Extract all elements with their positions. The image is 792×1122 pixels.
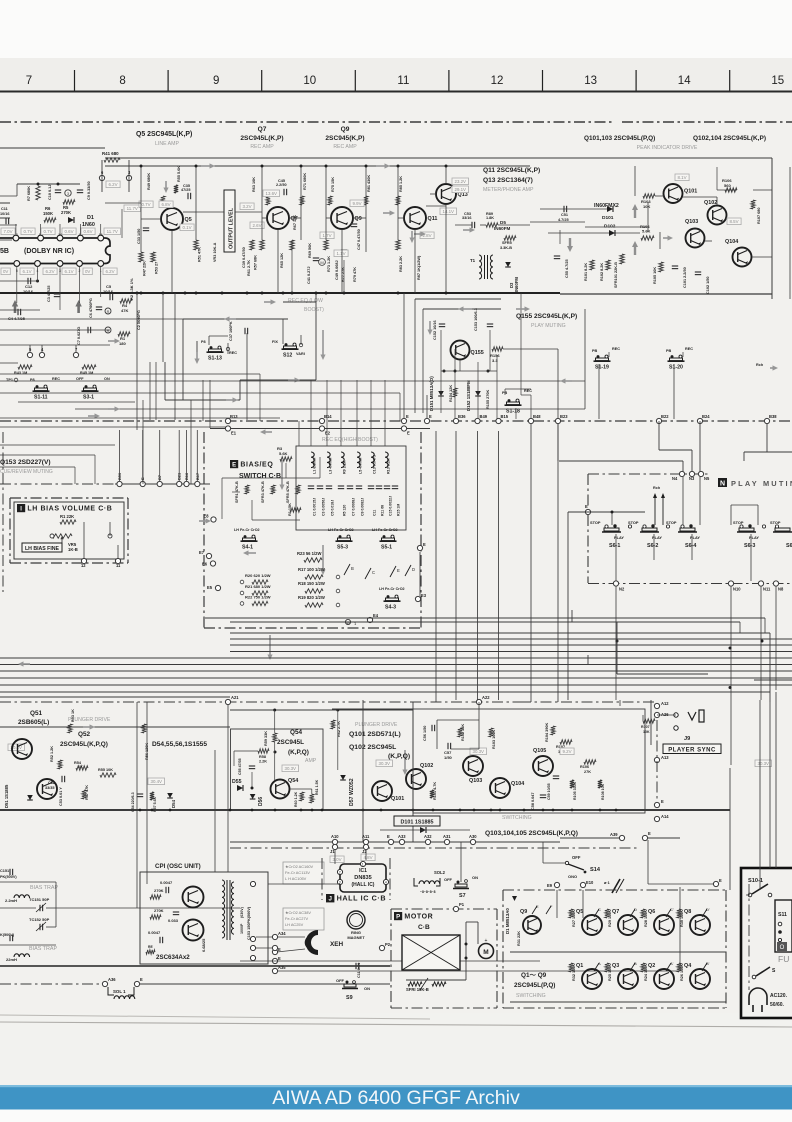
junction xyxy=(459,809,462,812)
svg-text:REC: REC xyxy=(52,377,60,381)
capacitor C53 33/16 xyxy=(471,222,473,228)
switch S6-3 pads xyxy=(739,528,754,531)
junction xyxy=(473,809,476,812)
svg-text:E: E xyxy=(585,504,588,509)
svg-text:LH BIAS FINE: LH BIAS FINE xyxy=(25,546,60,552)
switch S6-2 pads xyxy=(642,528,657,531)
node E xyxy=(585,509,590,514)
wire osc 948 xyxy=(256,947,273,949)
svg-text:Q7: Q7 xyxy=(612,909,619,915)
ruler baseline xyxy=(0,91,792,93)
node E9 xyxy=(554,882,559,887)
voltage label 1.7V xyxy=(320,232,334,239)
capacitor C11b xyxy=(355,963,357,969)
svg-text:R21 680 1/2W: R21 680 1/2W xyxy=(245,584,271,589)
arrow rch xyxy=(770,365,778,370)
wire eq inner left xyxy=(221,478,223,519)
wire 11.7 col xyxy=(121,209,123,238)
svg-text:10K: 10K xyxy=(643,204,650,209)
svg-text:OFF: OFF xyxy=(336,978,345,983)
inductor L3 4.7mH xyxy=(327,452,330,468)
svg-text:(630V): (630V) xyxy=(240,906,244,918)
wire drop cluster xyxy=(190,400,192,484)
resistor R24 100K xyxy=(641,963,645,972)
svg-text:E: E xyxy=(406,414,409,419)
wire q102 top xyxy=(716,167,718,190)
wire Q9 col1 xyxy=(325,166,327,240)
wire feeder xyxy=(186,430,188,481)
voltage label 30.3V xyxy=(376,760,393,767)
svg-text:Q1〜 Q9: Q1〜 Q9 xyxy=(521,972,547,979)
node A12 xyxy=(654,703,659,708)
svg-text:0V: 0V xyxy=(3,269,8,274)
wire A22 col down xyxy=(478,702,480,749)
svg-text:1K: 1K xyxy=(78,765,83,769)
wire q9 col2 xyxy=(365,166,367,252)
wire Q102 collector xyxy=(716,197,718,205)
IC pin stub top xyxy=(79,224,81,235)
wire r61 up xyxy=(311,789,313,794)
node E xyxy=(417,545,422,550)
wire tc151 to osc xyxy=(56,907,240,909)
arrow rec eq 5 xyxy=(264,299,276,304)
svg-text:33/16: 33/16 xyxy=(462,216,472,220)
wire mid h409 xyxy=(75,408,585,410)
wire col 521 jog xyxy=(521,394,531,396)
svg-text:270K: 270K xyxy=(154,908,164,913)
wire bus step v588 xyxy=(587,655,589,665)
svg-text:FIX: FIX xyxy=(272,340,278,344)
svg-text:12: 12 xyxy=(81,563,86,568)
svg-text:S12: S12 xyxy=(283,353,292,359)
wire q54 collector xyxy=(274,742,276,780)
svg-text:C54 220/6.3: C54 220/6.3 xyxy=(131,792,135,812)
board BIAS EQ outline bottom xyxy=(204,627,421,629)
wire feeder 147 low xyxy=(146,702,148,884)
svg-text:10K: 10K xyxy=(643,730,650,734)
resistor R89 1.8K xyxy=(486,223,498,227)
board title HALL IC CB xyxy=(326,894,334,902)
svg-text:C11: C11 xyxy=(373,510,377,516)
node E3 xyxy=(415,596,420,601)
voltage label 6.1V xyxy=(62,268,76,275)
svg-text:Q153 2SD227(V): Q153 2SD227(V) xyxy=(0,459,51,466)
svg-text:E2: E2 xyxy=(325,430,331,435)
node B15 xyxy=(496,418,501,423)
node B14 xyxy=(319,418,324,423)
wire tc152b xyxy=(46,926,56,928)
arrow down mid xyxy=(320,330,325,360)
wire Q7 base xyxy=(262,217,267,219)
voltage label 30.3V xyxy=(282,765,299,772)
IC IC1 5B (DOLBY NR IC) body xyxy=(0,238,110,264)
svg-text:L H AC105V: L H AC105V xyxy=(285,876,307,881)
svg-text:R106: R106 xyxy=(580,765,589,769)
svg-text:P1: P1 xyxy=(459,902,465,907)
voltage label 30.4V xyxy=(8,744,25,751)
svg-text:E: E xyxy=(278,956,281,961)
svg-text:Q5: Q5 xyxy=(185,217,192,223)
svg-text:2SC945L: 2SC945L xyxy=(277,739,304,746)
wire right col a xyxy=(729,768,731,890)
capacitor C7 0.027G xyxy=(87,327,89,333)
node 3 xyxy=(126,175,131,180)
resistor R156 3.3 xyxy=(492,347,503,351)
svg-text:Q51: Q51 xyxy=(30,710,43,717)
svg-text:C9 0.0082J: C9 0.0082J xyxy=(361,498,365,516)
resistor R23 xyxy=(304,558,322,562)
wire pin4 down xyxy=(37,266,39,281)
resistor R1 15K xyxy=(290,508,301,512)
wire rec eq 4 xyxy=(164,362,166,400)
wire Q5 col1 xyxy=(140,166,142,252)
svg-text:E: E xyxy=(648,831,651,836)
wire s7 feed xyxy=(460,842,462,882)
junction xyxy=(325,165,328,168)
motor board right xyxy=(496,909,498,1008)
node N10 xyxy=(728,581,733,586)
node A21 xyxy=(225,699,230,704)
wire B24 down xyxy=(699,421,701,474)
svg-text:STOP: STOP xyxy=(666,520,677,525)
IC pin 3 xyxy=(57,261,63,267)
svg-text:R22 750 1/2W: R22 750 1/2W xyxy=(245,595,271,600)
svg-text:C52: C52 xyxy=(48,781,55,785)
wire mid 4 xyxy=(0,426,230,428)
junction xyxy=(274,751,277,754)
junction xyxy=(140,165,143,168)
wire N10 down xyxy=(730,586,732,765)
wire S1-20 rec stub xyxy=(682,352,684,357)
resistor R1 180 xyxy=(118,332,130,336)
wire s1-13 up2 xyxy=(208,336,210,345)
svg-text:Q3: Q3 xyxy=(612,963,619,969)
svg-text:Q104: Q104 xyxy=(725,239,738,245)
resistor R63 10K xyxy=(266,196,270,205)
wire bus step h674 xyxy=(617,673,708,675)
wire c55 stub xyxy=(559,230,561,244)
wire bus step v617 xyxy=(616,622,618,674)
wire mid h381 xyxy=(0,380,585,382)
wire pin5 xyxy=(29,345,31,352)
svg-text:BIAS/EQ: BIAS/EQ xyxy=(240,461,273,468)
svg-text:LH Fe-Cr CrO2: LH Fe-Cr CrO2 xyxy=(328,528,354,532)
svg-text:PB: PB xyxy=(666,349,672,353)
jack J9 xyxy=(674,713,678,717)
svg-text:OUTPUT LEVEL: OUTPUT LEVEL xyxy=(229,207,235,249)
junction xyxy=(251,787,254,790)
svg-text:30.3V: 30.3V xyxy=(379,761,391,766)
wire drop to EQ xyxy=(370,380,372,446)
wire d101 row xyxy=(585,226,648,228)
svg-text:T1: T1 xyxy=(470,258,476,263)
ruler tick xyxy=(167,70,169,91)
svg-text:270K: 270K xyxy=(61,210,71,215)
svg-text:IN60FM: IN60FM xyxy=(494,226,511,231)
wire s1-13 top xyxy=(209,335,228,337)
svg-text:C37 100PK: C37 100PK xyxy=(229,321,233,341)
switch S1-11 xyxy=(35,388,48,391)
svg-text:ONO: ONO xyxy=(568,874,577,879)
noop5 xyxy=(683,196,700,211)
svg-text:C3 4.7/25: C3 4.7/25 xyxy=(47,286,51,302)
svg-text:STOP: STOP xyxy=(590,520,601,525)
svg-text:ON: ON xyxy=(472,875,478,880)
wire q7 col2 xyxy=(300,166,302,240)
svg-text:B24: B24 xyxy=(702,414,710,419)
svg-text:S1-11: S1-11 xyxy=(34,395,48,401)
svg-text:SFR5 47K-B: SFR5 47K-B xyxy=(286,481,290,503)
node E xyxy=(401,418,406,423)
capacitor C152 10/16 xyxy=(439,323,445,325)
junction xyxy=(57,183,60,186)
svg-text:4.8V: 4.8V xyxy=(364,855,373,860)
node E xyxy=(388,839,393,844)
wire under switches xyxy=(18,401,135,403)
svg-text:XEH: XEH xyxy=(330,941,344,948)
wire drop to EQ xyxy=(310,380,312,446)
junction xyxy=(454,370,457,373)
svg-text:CUE/REVIEW MUTING: CUE/REVIEW MUTING xyxy=(0,469,53,475)
svg-text:S6: S6 xyxy=(786,543,792,549)
IC pin 13 xyxy=(38,235,44,241)
wire top-left rail xyxy=(0,147,105,149)
svg-text:C153 150PK(500V): C153 150PK(500V) xyxy=(247,906,251,940)
junction xyxy=(336,709,339,712)
wire q7 out xyxy=(289,217,301,219)
junction xyxy=(729,686,732,689)
svg-text:R61 1.5K: R61 1.5K xyxy=(315,779,319,795)
svg-text:Q11: Q11 xyxy=(428,216,438,222)
inductor 2.2mH xyxy=(14,895,30,898)
junction xyxy=(443,370,446,373)
wire eq inner xyxy=(232,491,240,493)
node A35 xyxy=(272,968,277,973)
svg-text:R105 10K: R105 10K xyxy=(653,267,657,284)
wire lower col3 xyxy=(650,700,652,745)
voltage label 29.1V xyxy=(452,186,469,193)
wire rec eq 1 xyxy=(183,318,288,320)
wire col B48 xyxy=(530,395,532,420)
svg-text:2SC945L(P,Q): 2SC945L(P,Q) xyxy=(514,982,555,989)
footer bar top edge xyxy=(0,1085,792,1087)
svg-text:11.7V: 11.7V xyxy=(107,229,118,234)
wire s6-1 down xyxy=(615,534,617,581)
svg-text:Q155 2SC945L(K,P): Q155 2SC945L(K,P) xyxy=(516,313,577,320)
wire h393 drop xyxy=(399,393,401,421)
svg-text:5B: 5B xyxy=(0,248,9,255)
wire c56 loop v xyxy=(436,720,438,749)
wire pin7 xyxy=(75,345,77,352)
transistor Q52 xyxy=(37,779,57,799)
wire B23 jog xyxy=(559,460,683,462)
resistor R49 680K xyxy=(161,196,165,205)
capacitor C57 1/50 xyxy=(447,743,449,749)
svg-text:3.3K-B: 3.3K-B xyxy=(500,246,512,250)
wire feeder xyxy=(196,430,198,481)
wire left low 2 xyxy=(0,318,183,320)
svg-text:B38: B38 xyxy=(769,414,777,419)
wire E to switches xyxy=(588,511,645,513)
svg-text:R103 100K: R103 100K xyxy=(492,730,496,749)
capacitor C55 4.7/25 xyxy=(554,255,560,257)
wire s12 up xyxy=(282,319,284,344)
node E5 xyxy=(215,585,220,590)
wire q9 emitter drop xyxy=(341,229,343,293)
junction xyxy=(36,280,39,283)
dashdot N bottom row xyxy=(588,583,792,585)
voltage label 6.2V xyxy=(43,268,57,275)
svg-text:S1-18: S1-18 xyxy=(506,409,520,415)
wire left mid 2 xyxy=(0,454,95,456)
wire eq inner top xyxy=(222,477,320,479)
svg-text:Q104: Q104 xyxy=(511,781,524,787)
wire sw bottom rail xyxy=(510,1001,726,1003)
svg-text:10/16: 10/16 xyxy=(0,212,10,216)
svg-text:1000P: 1000P xyxy=(240,923,244,934)
svg-text:PLAY: PLAY xyxy=(690,535,700,540)
voltage label 0V xyxy=(1,268,10,275)
resistor R107b xyxy=(643,719,655,723)
node E xyxy=(654,802,659,807)
svg-text:6.1V: 6.1V xyxy=(23,269,32,274)
resistor R85 1.2K xyxy=(396,196,400,205)
resistor R58 2.2K xyxy=(258,749,269,753)
resistor R54 1K xyxy=(76,766,88,770)
bus ext 685 xyxy=(708,684,792,686)
resistor R30 100K xyxy=(677,909,681,918)
wire osc e xyxy=(240,960,277,962)
node A36 xyxy=(102,981,107,986)
inductor R9 2.2K xyxy=(341,452,344,468)
wire mid h393 xyxy=(0,392,400,394)
ruler tick xyxy=(448,70,450,91)
resistor SFR3 xyxy=(271,485,275,494)
erase head XEH xyxy=(305,930,318,955)
motor M circle xyxy=(479,944,494,959)
noop8 xyxy=(560,640,792,642)
capacitor C55 47/35 xyxy=(249,765,255,767)
wire bus step v572 xyxy=(571,610,573,622)
svg-text:E: E xyxy=(407,430,410,435)
svg-text:Q103: Q103 xyxy=(685,219,698,225)
svg-text:S6-3: S6-3 xyxy=(744,543,755,549)
wire Q155 emitter xyxy=(459,360,461,371)
wire bottom eq bend xyxy=(764,618,766,633)
diode D55 xyxy=(237,785,243,791)
capacitor R11 68 xyxy=(376,485,382,487)
svg-text:L3 4.7mH: L3 4.7mH xyxy=(329,457,333,474)
note box AC voltages 2 xyxy=(283,862,324,884)
svg-text:E: E xyxy=(232,462,236,468)
svg-text:1.8K: 1.8K xyxy=(486,216,494,220)
svg-text:1.7V: 1.7V xyxy=(323,233,332,238)
dashdot below A row xyxy=(230,847,640,849)
svg-text:★CrO2 AC160V: ★CrO2 AC160V xyxy=(285,864,314,869)
svg-text:BOOST): BOOST) xyxy=(304,307,324,313)
node E1 xyxy=(225,426,230,431)
svg-text:C39 0.47/50: C39 0.47/50 xyxy=(242,247,246,268)
svg-text:8.1V: 8.1V xyxy=(678,175,687,180)
junction xyxy=(229,809,232,812)
switch S3-1 xyxy=(84,388,97,391)
svg-text:BIAS TRAP: BIAS TRAP xyxy=(29,946,57,952)
transistor Q155 xyxy=(451,341,470,360)
svg-text:D102: D102 xyxy=(604,224,616,230)
wire q5 out xyxy=(196,211,224,213)
peak board outline right xyxy=(771,158,773,299)
arrow under S4-1 xyxy=(243,550,256,555)
svg-text:R65 12K: R65 12K xyxy=(280,253,284,268)
node B38 xyxy=(764,418,769,423)
node N2 xyxy=(613,581,618,586)
wire Q13 collector xyxy=(445,166,447,184)
capacitor C9 0.0082J xyxy=(356,485,362,487)
wire feeder 524 ext xyxy=(530,640,532,702)
IC1 pin 2 xyxy=(337,869,342,874)
wire r59 feed xyxy=(274,710,276,733)
switch S6-1 pads xyxy=(604,528,619,531)
resistor R154 12K xyxy=(453,388,457,397)
IC pin 14 xyxy=(57,235,63,241)
junction xyxy=(445,165,448,168)
capacitor C52 33/35 xyxy=(61,776,63,782)
svg-text:R87 1K(1/2W): R87 1K(1/2W) xyxy=(417,255,421,280)
transistor Q11 xyxy=(404,207,426,229)
svg-text:R23 56 1/2W: R23 56 1/2W xyxy=(297,551,321,556)
svg-text:R53 1K: R53 1K xyxy=(71,709,75,722)
switch S12 xyxy=(284,346,297,349)
arrow R104 to Q103 xyxy=(663,235,673,240)
svg-text:Q54: Q54 xyxy=(290,729,303,736)
diode D1 1N60 xyxy=(68,217,74,223)
svg-text:PK(500V): PK(500V) xyxy=(0,875,17,879)
arrow rec eq down xyxy=(194,352,199,364)
svg-text:SFR3 47K-B: SFR3 47K-B xyxy=(261,481,265,503)
svg-text:29.1V: 29.1V xyxy=(455,187,467,192)
resistor R21 xyxy=(252,591,268,595)
svg-text:S5-1: S5-1 xyxy=(381,545,392,551)
junction xyxy=(599,809,602,812)
wire playmute v1 xyxy=(414,299,416,413)
voltage label 8.5V xyxy=(727,218,741,225)
svg-text:REC: REC xyxy=(685,347,693,351)
IC pin stub top xyxy=(59,224,61,235)
transistor Q103 low xyxy=(463,756,483,776)
svg-text:A39: A39 xyxy=(610,832,618,837)
svg-text:Q103,104,105 2SC945L(K,P,Q): Q103,104,105 2SC945L(K,P,Q) xyxy=(485,830,578,837)
resistor R104 5.6K xyxy=(641,236,654,240)
svg-text:ON: ON xyxy=(104,377,110,381)
wire a34 to xeh xyxy=(277,936,305,938)
capacitor C101 2.2/50 xyxy=(672,265,678,267)
voltage label 13.6V xyxy=(263,190,280,197)
voltage label 1.1V xyxy=(334,250,348,257)
svg-text:A26: A26 xyxy=(661,712,669,717)
node E6 xyxy=(210,561,215,566)
svg-text:R154 12K: R154 12K xyxy=(449,385,453,402)
switch S6-4 pads xyxy=(680,528,695,531)
svg-text:C56 1/50: C56 1/50 xyxy=(423,726,427,741)
svg-text:C10 0.1J: C10 0.1J xyxy=(48,185,52,200)
node E xyxy=(134,981,139,986)
svg-text:C: C xyxy=(372,570,375,575)
wire s6-2 down xyxy=(653,534,655,560)
motor board left xyxy=(390,909,392,1008)
wire motor r1 xyxy=(465,922,467,980)
ruler tick xyxy=(354,70,356,91)
svg-text:R47 22K: R47 22K xyxy=(143,261,147,276)
